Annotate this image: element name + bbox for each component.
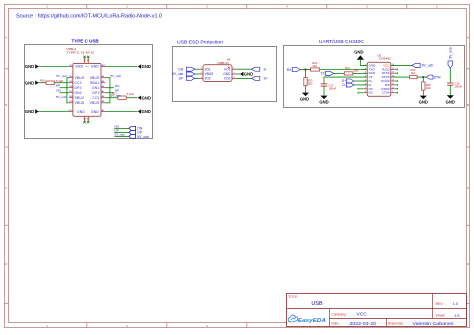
svg-text:USBLC6: USBLC6 — [217, 61, 229, 65]
svg-text:GND: GND — [446, 100, 455, 105]
svg-text:VBUS: VBUS — [90, 76, 100, 80]
wire 5V port to C19 — [449, 68, 451, 83]
wire GND top-right — [105, 66, 138, 68]
svg-text:CC1: CC1 — [92, 96, 99, 100]
svg-text:5.1kΩ: 5.1kΩ — [127, 92, 134, 96]
svg-text:GND: GND — [75, 65, 83, 69]
wire DP to I/O2 — [195, 77, 199, 79]
svg-text:5V_usb: 5V_usb — [56, 95, 67, 99]
ground flag bottom-right — [138, 109, 151, 114]
pin stubs — [199, 69, 236, 78]
resistor R23 2k — [304, 78, 307, 86]
wire DTR# to R24 — [391, 76, 410, 78]
svg-text:B: B — [5, 103, 7, 107]
wire R21 to RXD — [353, 72, 367, 74]
svg-text:NC: NC — [369, 91, 373, 95]
svg-text:R21: R21 — [345, 66, 350, 70]
svg-text:TYPE C USB: TYPE C USB — [72, 39, 100, 45]
svg-text:VCC: VCC — [356, 311, 367, 316]
svg-text:GND: GND — [419, 100, 428, 105]
resistor R21 1k — [344, 72, 353, 75]
svg-text:SBU2: SBU2 — [75, 96, 85, 100]
svg-text:DP: DP — [56, 84, 60, 88]
svg-text:RX: RX — [287, 68, 292, 72]
ground flag right — [240, 72, 253, 77]
wires — [300, 60, 450, 96]
svg-text:2022-03-20: 2022-03-20 — [350, 321, 377, 326]
resistor R24 1k — [410, 76, 418, 79]
box TYPE C USB — [25, 45, 153, 139]
svg-text:R16: R16 — [40, 78, 45, 82]
pin stubs — [69, 58, 105, 122]
svg-text:DP: DP — [115, 89, 119, 93]
svg-text:Sheet:: Sheet: — [436, 314, 446, 318]
wire GND bottom-right — [105, 111, 138, 113]
ground flag below C19 — [446, 95, 455, 104]
IC U5 CH340C — [367, 62, 391, 96]
ground flag below R23 — [300, 93, 309, 102]
wire CC2 left resistor — [38, 82, 46, 84]
ground flag top-right — [138, 64, 151, 69]
ground flag top-left — [25, 64, 39, 69]
svg-text:S1 S4: S1 S4 — [83, 60, 90, 62]
resistor R16 5.1k — [46, 81, 54, 84]
ground flag bottom-left — [25, 109, 39, 114]
pin stubs — [363, 65, 395, 92]
svg-text:GND: GND — [300, 97, 309, 102]
wire R25 to gnd — [422, 90, 424, 96]
svg-text:GND: GND — [354, 49, 363, 54]
svg-text:DN: DN — [178, 67, 183, 71]
svg-text:1kΩ: 1kΩ — [312, 64, 317, 68]
svg-text:5.1kΩ: 5.1kΩ — [56, 79, 63, 83]
wire GND top-left — [38, 66, 69, 68]
svg-text:GND: GND — [142, 109, 151, 114]
ground flag below R25 — [419, 96, 428, 105]
wire CC1 right resistor — [105, 97, 118, 99]
wire D+ port to pin — [354, 80, 367, 82]
wire I/O1 to D- — [236, 68, 252, 70]
svg-text:B: B — [467, 103, 469, 107]
wire VCC to 5V_usb port — [391, 64, 412, 66]
svg-text:Drawn By:: Drawn By: — [388, 322, 404, 326]
svg-text:VBUS: VBUS — [75, 101, 85, 105]
svg-text:A: A — [5, 36, 7, 40]
svg-text:DN1: DN1 — [92, 86, 99, 90]
wire DP2 — [60, 87, 69, 89]
svg-text:EasyEDA: EasyEDA — [298, 318, 326, 324]
svg-text:DN: DN — [115, 84, 119, 88]
resistor R17 5.1k — [118, 96, 126, 99]
svg-text:VBUS: VBUS — [75, 76, 85, 80]
svg-text:1kΩ: 1kΩ — [426, 86, 431, 90]
svg-text:USB: USB — [311, 301, 323, 307]
svg-text:2kΩ: 2kΩ — [308, 82, 313, 86]
wire DP1 right — [105, 92, 114, 94]
svg-text:GND: GND — [91, 110, 99, 114]
box UART/USB CH340C — [284, 46, 465, 108]
svg-text:100nF: 100nF — [454, 85, 462, 89]
svg-text:GND: GND — [244, 72, 253, 77]
svg-text:GND: GND — [91, 65, 99, 69]
svg-text:D+: D+ — [264, 77, 268, 81]
junction node R24/DTR/R25 — [422, 76, 424, 78]
port 5V_usb (VCC) — [412, 63, 420, 67]
ground flag CC1 right — [138, 95, 151, 100]
svg-text:D-: D- — [343, 83, 346, 87]
resistor R25 1k — [422, 82, 425, 90]
wire port DN bottom — [114, 127, 128, 129]
wire C17 to gnd — [323, 86, 325, 95]
wire DN2 — [60, 92, 69, 94]
port D+ right — [252, 76, 260, 80]
svg-text:GND: GND — [142, 95, 151, 100]
svg-text:CC2: CC2 — [75, 81, 82, 85]
resistor R22 1k — [311, 68, 320, 71]
shell pin no-connect marks — [83, 56, 89, 124]
svg-text:GND: GND — [25, 109, 34, 114]
svg-text:D-: D- — [264, 67, 267, 71]
port DTR — [426, 75, 433, 79]
svg-text:I/O2: I/O2 — [205, 77, 211, 81]
svg-text:DTR: DTR — [434, 75, 441, 79]
unconnected pin green ends — [358, 68, 398, 93]
wire 5V_usb to VBUS — [195, 73, 199, 75]
pin numbers — [365, 64, 394, 93]
wire R22 to TXD — [320, 69, 368, 71]
svg-text:1kΩ: 1kΩ — [354, 68, 359, 72]
svg-text:I/O2: I/O2 — [224, 77, 230, 81]
capacitor C17 100nF — [321, 84, 327, 86]
svg-text:DP: DP — [179, 77, 184, 81]
port DN bottom — [129, 126, 136, 138]
ground flag below C17 — [319, 96, 328, 105]
svg-text:GND: GND — [25, 64, 34, 69]
diode array D4 USBLC6 — [203, 65, 232, 82]
svg-text:GND: GND — [25, 80, 34, 85]
wire VBUS right vertical — [105, 78, 110, 103]
svg-text:I/O1: I/O1 — [205, 67, 211, 71]
svg-text:100nF: 100nF — [329, 86, 337, 90]
wire RX to R22 — [300, 69, 310, 71]
wire GND pin — [236, 73, 240, 75]
wire TX to R21 — [334, 72, 345, 74]
wire R23 to gnd — [305, 86, 307, 93]
svg-text:A: A — [467, 36, 469, 40]
wire R24 to DTR port — [417, 76, 426, 78]
wire junction to R25 — [422, 77, 424, 82]
EasyEDA logo — [288, 315, 326, 324]
svg-text:I/O1: I/O1 — [224, 67, 230, 71]
connector USBC1 TYPE-C-31-M-12 — [73, 63, 101, 116]
svg-text:UART/USB CH340C: UART/USB CH340C — [319, 39, 365, 44]
wire GND bottom-left — [38, 111, 69, 113]
wire VBUS left vertical — [67, 78, 69, 103]
svg-text:Valentin Cabanes: Valentin Cabanes — [413, 321, 454, 326]
svg-text:1kΩ: 1kΩ — [411, 71, 416, 75]
capacitor C19 100nF — [447, 83, 453, 85]
pin names inside — [75, 65, 101, 114]
svg-text:5V_usb: 5V_usb — [137, 135, 148, 139]
svg-text:5V_usb: 5V_usb — [111, 93, 122, 97]
wire port DP bottom — [114, 131, 128, 133]
svg-text:DN2: DN2 — [75, 91, 82, 95]
svg-text:SBU1: SBU1 — [90, 81, 100, 85]
svg-text:TYPE-C-31-M-12: TYPE-C-31-M-12 — [66, 50, 95, 54]
wire port 5V_usb bottom — [114, 135, 128, 137]
svg-text:VBUS: VBUS — [90, 101, 100, 105]
svg-text:Source : https://github.com/IO: Source : https://github.com/IOT-MCU/LoRa… — [16, 14, 162, 20]
svg-text:DP2: DP2 — [75, 86, 82, 90]
wires — [38, 67, 137, 137]
wire D- port to pin — [354, 84, 367, 86]
wire DN to I/O1 — [195, 68, 199, 70]
port D- right — [252, 67, 260, 71]
svg-text:Date:: Date: — [331, 322, 339, 326]
svg-text:GND: GND — [77, 110, 85, 114]
svg-text:Company:: Company: — [331, 312, 347, 316]
svg-text:GND: GND — [142, 64, 151, 69]
wire DN1 right — [105, 87, 114, 89]
svg-text:5V_usb: 5V_usb — [422, 64, 433, 68]
svg-text:5V_usb: 5V_usb — [56, 74, 67, 78]
ground flag CC2 left — [25, 80, 39, 85]
svg-text:1.0: 1.0 — [452, 301, 458, 306]
svg-text:S2 S3: S2 S3 — [83, 119, 90, 121]
svg-text:5V_usb: 5V_usb — [114, 133, 125, 137]
svg-text:5V_usb: 5V_usb — [449, 47, 453, 58]
svg-text:CH340C: CH340C — [379, 57, 393, 61]
wire C19 to gnd — [449, 85, 451, 95]
wire V3 to C17 — [324, 77, 367, 84]
wire I/O2 to D+ — [236, 77, 252, 79]
pin numbers — [68, 64, 106, 112]
svg-text:REV:: REV: — [436, 302, 444, 306]
svg-text:0-0: 0-0 — [85, 66, 89, 68]
svg-text:VBUS: VBUS — [205, 72, 214, 76]
wire GND pin to top flag — [360, 60, 367, 66]
svg-text:DP1: DP1 — [92, 91, 99, 95]
svg-text:GND: GND — [319, 100, 328, 105]
ground flag up (top) — [354, 49, 364, 59]
svg-text:GND: GND — [223, 72, 231, 76]
svg-text:5V_usb: 5V_usb — [172, 72, 183, 76]
svg-text:5V_usb: 5V_usb — [111, 74, 122, 78]
svg-text:USB ESD Protection: USB ESD Protection — [177, 40, 223, 45]
pin numbers — [201, 68, 236, 79]
svg-text:DN: DN — [56, 89, 60, 93]
junction node RX/R22/R23 — [304, 68, 306, 70]
svg-text:TITLE:: TITLE: — [288, 295, 298, 299]
wire junction down to R23 — [305, 70, 307, 78]
box USB ESD Protection — [173, 47, 277, 102]
svg-text:1/1: 1/1 — [454, 313, 460, 318]
svg-text:CTS#: CTS# — [382, 91, 390, 95]
